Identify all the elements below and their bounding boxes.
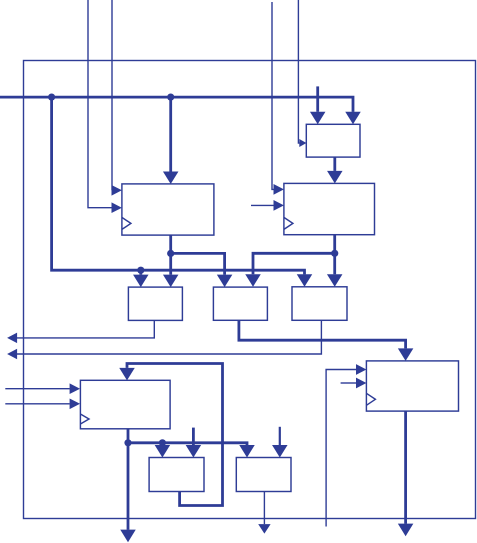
- wire stub into LATCH2 right: [279, 427, 281, 445]
- arrowhead out left 1: [7, 333, 17, 344]
- junction dot latch bus: [159, 439, 166, 446]
- wire MUX1 output down to REG-B: [333, 157, 336, 171]
- wire feedback loop LATCH1 output to REG-C top: [127, 364, 223, 506]
- REG-B box: [284, 183, 375, 234]
- arrowhead into MUX4 top left: [133, 275, 149, 288]
- arrowhead out left 2: [7, 349, 17, 360]
- REG-B clock chevron: [284, 217, 293, 229]
- wire vertical input line x=112 to REG-A input 1: [111, 0, 113, 190]
- arrowhead LATCH2 output: [258, 524, 270, 534]
- wire branch net C down to MUX4 left: [139, 270, 142, 274]
- arrowhead into MUX5 top left: [217, 275, 233, 288]
- wire vertical input line x=88 to REG-A input 2: [88, 0, 112, 208]
- wire MUX6 output to left edge: [17, 320, 322, 354]
- REG-D clock chevron: [366, 393, 375, 405]
- arrowhead into REG-C input 1: [70, 383, 80, 394]
- junction dot REG-C output: [124, 439, 131, 446]
- REG-A clock chevron: [122, 217, 131, 229]
- wire net A branch to MUX5 left: [171, 253, 225, 274]
- wire net C from bus down and across to MUX6: [52, 97, 305, 274]
- wire input line to REG-D input 1: [326, 370, 356, 527]
- REG-A box: [122, 184, 214, 235]
- arrowhead into MUX1 top right: [345, 112, 361, 125]
- wire net A REG-A output down: [169, 235, 172, 275]
- arrowhead into MUX1 left: [299, 139, 306, 147]
- MUX1 box: [306, 124, 360, 157]
- wire REG-C output down and out bottom: [127, 429, 130, 530]
- arrowhead into REG-D input 2: [356, 378, 366, 389]
- MUX6 box: [292, 287, 347, 321]
- junction dot on bus at x=170.7: [167, 94, 174, 101]
- REG-C box: [80, 380, 170, 429]
- arrowhead into REG-A input 1: [112, 185, 122, 196]
- junction dot net A: [167, 250, 174, 257]
- arrowhead into REG-A input 2: [112, 202, 122, 213]
- arrowhead into MUX6 top right: [327, 274, 343, 287]
- arrowhead into MUX6 top left: [297, 274, 313, 287]
- wire input line to REG-C input 2: [5, 403, 69, 405]
- arrowhead into REG-D input 1: [356, 364, 366, 375]
- wire REG-D output down and out: [404, 411, 407, 524]
- arrowhead into MUX1 top left: [310, 112, 326, 125]
- wire branch down to LATCH1 left: [161, 443, 164, 445]
- arrowhead into LATCH2 top right: [272, 445, 288, 458]
- junction dot on bus at x=51.6: [48, 94, 55, 101]
- wire stub into LATCH1 right: [192, 428, 195, 445]
- wire net B REG-B output down: [333, 235, 336, 275]
- wire stub into MUX1 top left: [316, 86, 319, 111]
- REG-D box: [366, 361, 458, 411]
- arrowhead into REG-B input 2: [274, 200, 284, 211]
- arrowhead into REG-C input 2: [70, 398, 80, 409]
- wire input line to REG-C input 1: [5, 388, 69, 390]
- wire stub to REG-D input 2: [341, 382, 357, 384]
- arrowhead into MUX5 top right: [245, 274, 261, 287]
- wire MUX5 output across to REG-D: [239, 320, 406, 348]
- wire net B branch to MUX5 right: [253, 253, 335, 274]
- arrowhead into REG-C top: [119, 368, 135, 381]
- wire main horizontal bus: [0, 97, 353, 112]
- LATCH2 box: [236, 458, 291, 492]
- arrowhead into MUX4 top right: [163, 275, 179, 288]
- arrowhead into REG-B top: [327, 171, 343, 184]
- junction dot net C at x=140.8: [137, 267, 144, 274]
- outer block boundary: [24, 61, 476, 519]
- LATCH1 box: [149, 458, 204, 492]
- arrowhead into LATCH2 top left: [239, 445, 255, 458]
- arrowhead into REG-B input 1: [274, 184, 284, 195]
- wire stub into REG-B input 2: [251, 204, 274, 206]
- MUX5 box: [213, 287, 267, 320]
- wire vertical input line x=272 to REG-B input 1: [272, 2, 274, 189]
- junction dot net B: [331, 250, 338, 257]
- wire branch bus to LATCH inputs: [128, 443, 247, 445]
- arrowhead REG-D output: [398, 524, 414, 537]
- arrowhead into REG-A top: [163, 172, 179, 185]
- arrowhead into LATCH1 top left: [155, 445, 171, 458]
- arrowhead REG-C output bottom: [120, 530, 136, 543]
- REG-C clock chevron: [80, 414, 89, 424]
- wire bus branch down to REG-A top: [169, 97, 172, 171]
- arrowhead into REG-D top: [398, 348, 414, 361]
- wire vertical input line x=298 to MUX1 left: [298, 0, 299, 143]
- wire MUX4 output to left edge: [17, 320, 154, 338]
- MUX4 box: [128, 287, 182, 320]
- arrowhead into LATCH1 top right: [186, 445, 202, 458]
- wire LATCH2 output down: [263, 492, 265, 525]
